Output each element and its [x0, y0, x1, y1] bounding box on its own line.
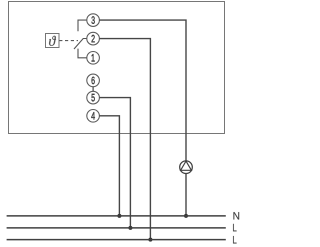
wire terminal 4 to N	[99, 116, 119, 216]
wire terminal 3 to pump	[99, 20, 186, 161]
wire terminal 2 to L2	[100, 39, 151, 240]
pump (circulator)	[180, 161, 193, 174]
terminal 1	[87, 52, 100, 65]
wire terminal 5 to L1	[100, 98, 131, 228]
terminal 5	[87, 91, 100, 104]
junction 2-L2	[148, 238, 152, 242]
dashed actuator link	[59, 40, 78, 42]
mains line L2	[7, 239, 226, 241]
temperature sensor box with theta symbol	[46, 34, 60, 48]
wire contact from terminal 3	[78, 20, 87, 31]
terminal 4	[87, 110, 100, 123]
terminal 6	[87, 74, 100, 87]
label N	[233, 212, 239, 219]
device outline (thermostat housing)	[9, 2, 225, 134]
junction 4-N	[117, 214, 121, 218]
label L1	[233, 224, 237, 231]
terminal 2	[87, 32, 100, 45]
switch blade from terminal 2	[74, 39, 87, 50]
terminal 3	[87, 14, 100, 27]
wire terminal 6 to terminal 5	[92, 87, 94, 92]
mains line N	[7, 215, 226, 217]
wire contact from terminal 1	[78, 49, 87, 58]
junction 5-L1	[128, 226, 132, 230]
mains line L1	[7, 227, 226, 229]
label L2	[233, 236, 237, 243]
junction pump-N	[184, 214, 188, 218]
wire pump to N	[185, 174, 187, 216]
